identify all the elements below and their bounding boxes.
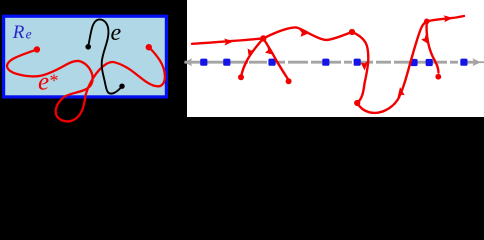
label e (black) — [111, 20, 122, 46]
red chord curve: incoming horizontal segment — [192, 38, 263, 45]
junction dot J — [260, 35, 266, 41]
black endpoint dot (bottom of e) — [119, 84, 124, 89]
red curve: M descending across axis to dot N — [352, 32, 368, 103]
background canvas — [0, 0, 484, 129]
red dot N (below axis) — [354, 100, 360, 106]
black endpoint dot (top of e) — [85, 44, 91, 50]
axis arrowhead left — [184, 58, 192, 66]
red chord curve: junction to top arc toward node M — [263, 27, 352, 39]
red segment: P rightward with arrow — [427, 15, 464, 22]
red dot D1 (below axis) — [238, 74, 244, 80]
red stub: P downward across axis to dot Q — [421, 21, 438, 72]
label e* (red) — [38, 69, 59, 96]
white backdrop of right diagram — [187, 0, 484, 117]
red stub: junction down-right to dot D2 — [263, 38, 288, 79]
red dot D2 (below axis) — [286, 78, 292, 84]
red curve e* (loop inside and below box) — [7, 47, 165, 121]
region box R_e (filled rectangle) — [4, 16, 167, 97]
red dot M (on upper arc) — [349, 29, 355, 35]
red dot Q (below axis) — [435, 74, 441, 80]
black curve e (edge through box) — [88, 19, 121, 93]
axis arrowhead right — [473, 58, 481, 66]
red dot P (top) — [424, 19, 430, 25]
svg-text:e: e — [38, 69, 49, 96]
svg-text:R: R — [12, 22, 25, 43]
node A (red endpoint dot) — [34, 46, 40, 52]
svg-text:*: * — [50, 71, 59, 91]
svg-text:e: e — [111, 20, 122, 46]
red curve: U sweep from N rising across axis to dot P — [357, 21, 427, 113]
dashed axis line (gray double arrow) — [185, 61, 484, 64]
label R_e — [12, 22, 32, 43]
vertex squares on axis — [200, 59, 207, 66]
node B (red endpoint dot) — [146, 44, 152, 50]
red stub: junction down-left to dot D1 — [241, 38, 263, 76]
svg-text:e: e — [26, 26, 32, 41]
